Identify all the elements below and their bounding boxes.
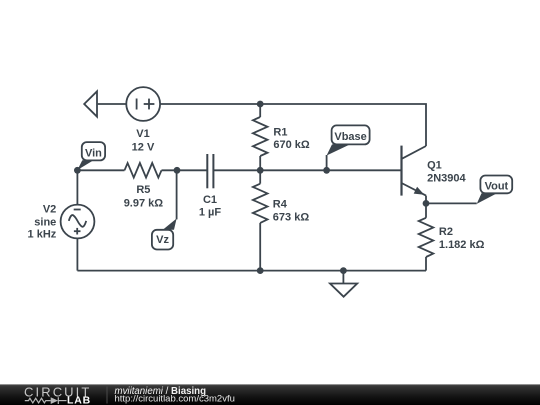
footer logo CIRCUIT: [24, 384, 91, 399]
svg-text:R2: R2: [439, 226, 453, 238]
resistor R4: [253, 170, 268, 270]
svg-text:Q1: Q1: [427, 160, 442, 172]
arrow terminal (left net flag): [84, 91, 97, 116]
label R5 value: [124, 184, 164, 209]
svg-text:http://circuitlab.com/c3m2vfu: http://circuitlab.com/c3m2vfu: [115, 394, 235, 405]
net flag Vin: [74, 142, 105, 174]
label V2 sine 1 kHz: [28, 204, 57, 241]
junction at emitter node: [423, 200, 430, 207]
svg-text:9.97 kΩ: 9.97 kΩ: [124, 198, 164, 210]
wire: top rail V1 to collector corner: [160, 104, 426, 146]
svg-text:Vz: Vz: [156, 234, 169, 246]
net flag Vz: [152, 219, 177, 250]
svg-text:V2: V2: [43, 204, 56, 216]
junction at Vz tap: [174, 167, 181, 174]
svg-text:C1: C1: [203, 194, 217, 206]
svg-text:Vbase: Vbase: [334, 131, 366, 143]
svg-text:R4: R4: [273, 199, 288, 211]
svg-text:Vout: Vout: [485, 181, 509, 193]
label Vbase: [334, 131, 366, 143]
wire: bottom rail: [77, 270, 426, 272]
transistor Q1: [402, 146, 427, 204]
wire: Vin node to R5: [77, 169, 124, 171]
label Q1 2N3904: [427, 160, 466, 185]
net flag Vbase: [327, 125, 370, 155]
svg-text:V1: V1: [136, 128, 149, 140]
footer text line 1: [115, 386, 207, 397]
junction bottom rail at ground: [340, 267, 347, 274]
capacitor C1: [207, 154, 213, 188]
svg-text:1.182 kΩ: 1.182 kΩ: [439, 239, 485, 251]
resistor R2: [419, 203, 434, 270]
voltage source V2: [61, 205, 95, 239]
svg-text:R1: R1: [273, 127, 287, 139]
resistor R1: [253, 104, 268, 170]
wire: R5 to C1: [162, 169, 208, 171]
footer logo LAB: [67, 395, 91, 405]
label V1 12 V: [132, 128, 155, 154]
svg-text:2N3904: 2N3904: [427, 172, 466, 184]
svg-text:1 µF: 1 µF: [199, 207, 222, 219]
footer bar: [0, 384, 540, 405]
junction at Vbase: [323, 167, 330, 174]
junction mid wire at R1/R4: [257, 167, 264, 174]
wire: Vin node down to V2: [76, 170, 78, 204]
resistor R5: [125, 163, 162, 178]
label C1 value: [199, 194, 222, 219]
footer text line 2: [115, 394, 235, 405]
wire: arrow to V1: [98, 103, 127, 105]
svg-text:R5: R5: [136, 184, 150, 196]
label R2 value: [439, 226, 485, 251]
footer logo resistor-diode glyph: [25, 397, 67, 404]
footer separator: [106, 387, 108, 404]
label R4 value: [273, 199, 310, 224]
wire: emitter node to Vout: [426, 202, 477, 204]
label Vin: [85, 148, 102, 160]
wire: Vbase stub: [326, 155, 328, 170]
svg-text:12 V: 12 V: [132, 142, 155, 154]
svg-text:Vin: Vin: [85, 148, 102, 160]
wire: C1 to base: [213, 169, 401, 171]
wire: V2 to bottom rail: [76, 238, 78, 270]
label Vout: [485, 181, 509, 193]
svg-text:sine: sine: [34, 216, 56, 228]
net flag Vout: [477, 176, 513, 204]
junction bottom rail at R4: [257, 267, 264, 274]
label Vz: [156, 234, 169, 246]
ground: [330, 271, 357, 297]
wire: Vz stub: [176, 170, 178, 219]
junction on top rail at R1: [257, 101, 264, 108]
label R1 value: [273, 127, 310, 152]
voltage source V1: [126, 87, 160, 121]
svg-text:1 kHz: 1 kHz: [28, 229, 57, 241]
svg-text:673 kΩ: 673 kΩ: [273, 211, 310, 223]
svg-text:670 kΩ: 670 kΩ: [273, 139, 310, 151]
svg-text:LAB: LAB: [67, 395, 91, 405]
